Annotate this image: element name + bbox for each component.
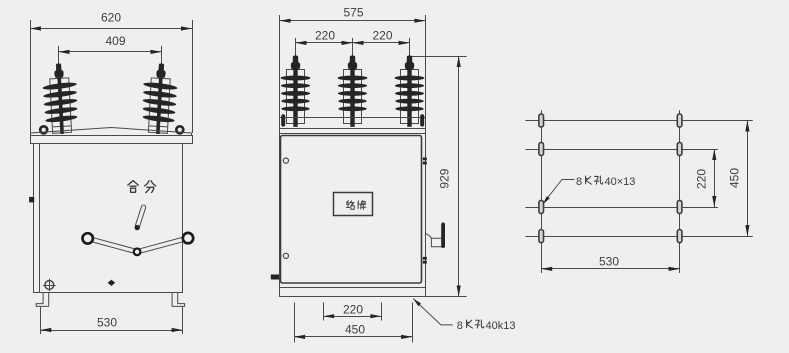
lever tip dot <box>135 225 140 230</box>
side handle grip <box>441 223 445 249</box>
side handle bracket <box>425 233 442 246</box>
dim 220 bottom extension left <box>323 303 325 321</box>
dim 220 right line <box>353 41 410 45</box>
slot label text 8长孔40×13 <box>576 176 635 188</box>
channel bottom line <box>280 128 426 130</box>
svg-text:530: 530 <box>599 254 619 268</box>
svg-text:530: 530 <box>97 316 117 330</box>
dim 620 extension right <box>192 20 194 133</box>
dim 530 extension left <box>40 307 42 334</box>
grounding bolt <box>43 279 56 292</box>
operating lever <box>135 205 147 229</box>
frame top line <box>280 133 426 135</box>
leader note text 8长孔40k13 <box>457 320 516 332</box>
top plate <box>31 136 193 144</box>
dim 929 line <box>457 56 461 297</box>
linkage bar right <box>137 236 189 254</box>
dim 450 line <box>294 335 412 339</box>
drain spout <box>271 275 279 280</box>
linkage pivot right <box>183 233 193 243</box>
svg-text:40×13: 40×13 <box>605 176 636 188</box>
cabinet inner edge line <box>39 144 41 293</box>
foot right <box>172 293 185 307</box>
dim 530 line right view <box>541 267 679 271</box>
cabinet bottom line <box>280 287 426 289</box>
insulator A pin <box>295 38 297 59</box>
label he-fen (合分) <box>128 181 156 193</box>
svg-text:40k13: 40k13 <box>486 320 516 332</box>
dim 450 extension right <box>412 303 414 343</box>
insulator A (front) <box>281 55 311 126</box>
svg-text:929: 929 <box>438 168 452 188</box>
slot r4c2 <box>677 230 682 243</box>
dim 409 line <box>59 50 162 54</box>
dim 220 vertical line <box>712 149 716 207</box>
foot left <box>36 293 49 307</box>
door knob top <box>283 158 288 163</box>
insulator right (side view) <box>141 63 179 135</box>
dim 220 bottom line <box>323 314 381 318</box>
insulator C pin <box>409 38 411 59</box>
slot r2c2 <box>677 142 682 155</box>
dim 575 line <box>280 19 426 23</box>
wall left / 575 extension <box>279 15 281 287</box>
svg-text:450: 450 <box>345 322 365 336</box>
svg-text:450: 450 <box>728 168 742 188</box>
insulator left (side view) <box>41 63 79 135</box>
nameplate box <box>334 193 373 216</box>
slot r3c2 <box>677 200 682 213</box>
dim 220 left line <box>296 41 353 45</box>
insulator C (front) <box>395 55 425 126</box>
slot r3c1 <box>539 200 544 213</box>
platform bolt right <box>420 114 424 126</box>
insulator B (front) <box>338 55 368 126</box>
right wall bolt pair bottom <box>423 257 427 264</box>
platform line <box>280 117 426 119</box>
diamond mark <box>108 280 116 286</box>
nameplate text (铭牌) <box>347 201 366 210</box>
mounting rail row 4 <box>526 236 753 238</box>
leader slots note <box>413 299 453 325</box>
svg-text:220: 220 <box>315 29 335 43</box>
dim 620 line <box>30 26 192 30</box>
slot r2c1 <box>539 142 544 155</box>
dim 530 line <box>40 328 182 332</box>
dim 620 extension left <box>30 20 32 133</box>
insulator right pin <box>161 46 163 66</box>
platform bolt left <box>281 114 285 126</box>
top reference line <box>410 56 467 58</box>
cabinet side body <box>34 144 183 293</box>
mounting rail column left <box>541 110 543 273</box>
dim 450 vertical line <box>745 121 749 237</box>
door panel <box>281 136 422 284</box>
insulator B pin <box>352 38 354 59</box>
door knob bottom <box>283 253 288 258</box>
slot r1c1 <box>539 114 544 127</box>
linkage bar left <box>87 236 138 254</box>
svg-text:220: 220 <box>343 303 363 317</box>
linkage pivot left <box>83 233 93 243</box>
dim 220 bottom extension right <box>381 303 383 321</box>
slot r4c1 <box>539 230 544 243</box>
mounting rail row 3 <box>526 207 718 209</box>
mounting rail column right <box>679 110 681 273</box>
bolt ring left on roof <box>40 126 47 133</box>
svg-text:620: 620 <box>101 11 121 25</box>
wall right / 575 extension <box>425 15 427 287</box>
mounting rail row 1 <box>526 120 753 122</box>
svg-text:220: 220 <box>372 29 392 43</box>
leader slot label <box>543 180 575 205</box>
svg-text:8: 8 <box>576 176 582 188</box>
base bottom reference line <box>426 296 467 298</box>
svg-text:409: 409 <box>105 34 125 48</box>
hinge block <box>29 197 34 203</box>
base plate <box>280 288 426 297</box>
insulator left pin <box>58 46 60 66</box>
svg-text:220: 220 <box>695 169 709 189</box>
dim 530 extension right <box>182 307 184 334</box>
svg-text:575: 575 <box>343 6 363 20</box>
slot r1c2 <box>677 114 682 127</box>
bolt ring right on roof <box>176 126 183 133</box>
roof sloped top <box>31 128 192 136</box>
dim 450 extension left <box>294 303 296 343</box>
right wall bolt pair top <box>423 158 427 165</box>
middle extension pin <box>352 38 354 47</box>
svg-text:8: 8 <box>457 320 463 332</box>
linkage pivot center <box>134 249 141 256</box>
mounting rail row 2 <box>526 149 718 151</box>
